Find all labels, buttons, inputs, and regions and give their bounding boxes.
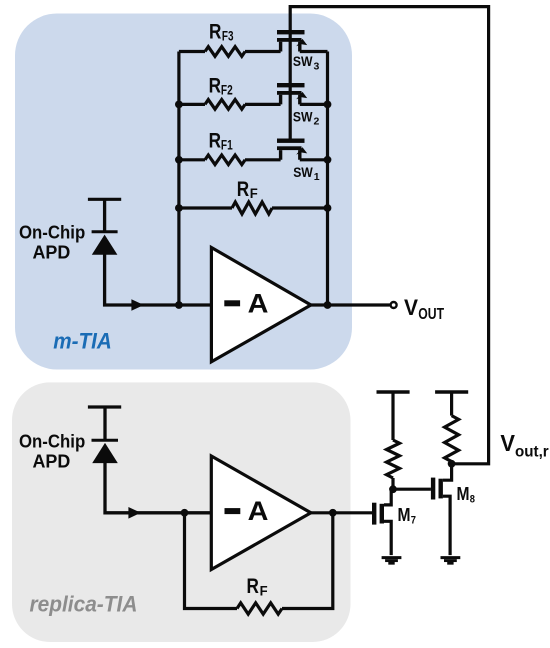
ground (M7 source) [382, 558, 402, 564]
svg-text:R: R [209, 75, 221, 98]
wire: op-amp U1 output to VOUT terminal [311, 303, 390, 306]
svg-text:SW: SW [293, 54, 313, 69]
resistor R bias left (vertical) [387, 440, 400, 478]
wire: Vout,r node down to M8 drain stub [443, 464, 452, 480]
svg-text:A: A [248, 496, 269, 526]
svg-text:7: 7 [411, 514, 416, 526]
wire: APD anode down and right to input node [105, 254, 212, 306]
svg-text:V: V [500, 430, 515, 456]
svg-text:1: 1 [314, 171, 320, 183]
wire: RF1 row left segment [179, 158, 205, 161]
svg-text:F: F [250, 186, 258, 201]
wire: m-TIA right output bus [326, 52, 329, 306]
resistor RF1 [205, 155, 245, 165]
wire: SW2 drain to right bus [300, 103, 328, 106]
supply T bar above R bias (left) [377, 390, 410, 393]
wire: RF1 row right segment to SW1 source stub [245, 158, 281, 161]
wire: replica output to M7 gate [311, 511, 372, 514]
replica-TIA region background [12, 382, 351, 642]
transistor M8 (NMOS) [431, 478, 450, 555]
wire: RF row right segment [272, 206, 328, 209]
label minus sign of op-amp U2 [225, 508, 241, 514]
supply T bar above m-TIA APD [88, 198, 121, 201]
svg-text:M: M [398, 505, 411, 526]
wire: switch gate bus up, top rail, right bus down to Vout,r corner [290, 7, 488, 464]
svg-text:APD: APD [33, 242, 71, 263]
svg-text:R: R [237, 178, 249, 201]
op-amp U2 (replica, gain -A) [211, 456, 311, 570]
junction dot: m-TIA output node [324, 301, 332, 309]
wire: left resistor to M7 drain node [391, 478, 394, 489]
wire: replica APD anode down and right to input node [105, 462, 210, 513]
svg-text:2: 2 [314, 115, 320, 127]
label minus sign of op-amp U1 [224, 300, 240, 306]
wire: RF3 row left segment [179, 50, 205, 53]
junction dot: replica output node [329, 509, 337, 517]
junction: right bus / SW2 row [324, 101, 332, 109]
wire: RF2 row right segment to SW2 source stub [245, 103, 281, 106]
wire: SW1 drain to right bus [300, 158, 328, 161]
svg-text:SW: SW [293, 165, 313, 180]
svg-text:R: R [209, 130, 221, 153]
svg-text:SW: SW [293, 109, 313, 124]
svg-text:8: 8 [470, 494, 475, 506]
current arrow into replica input [128, 507, 140, 519]
wire: RF row left segment [179, 206, 232, 209]
wire: m-TIA left input bus (inverting input node column) [177, 52, 180, 306]
svg-text:R: R [209, 20, 221, 43]
junction: left bus / RF2 row [175, 101, 183, 109]
wire: node to M8 gate [393, 488, 431, 491]
svg-text:M: M [457, 484, 470, 505]
resistor RF2 [205, 100, 245, 110]
resistor RF3 [205, 47, 245, 57]
wire: node down to M7 drain stub [384, 489, 391, 505]
diode APD (replica): anode triangle [92, 443, 118, 463]
wire: supply down to right bias resistor [450, 392, 453, 416]
svg-text:out,r: out,r [515, 444, 549, 461]
switch SW3 (MOS switch) [277, 30, 307, 52]
svg-text:replica-TIA: replica-TIA [30, 592, 138, 617]
junction dot: M7 drain / M8 gate node [389, 485, 397, 493]
resistor RF (replica) [237, 603, 282, 614]
junction dot: Vout,r node [448, 460, 456, 468]
svg-text:A: A [248, 288, 269, 318]
svg-text:On-Chip: On-Chip [19, 222, 85, 243]
resistor RF (m-TIA) [232, 202, 272, 214]
svg-text:F: F [260, 583, 268, 598]
wire: supply to APD cathode [103, 199, 106, 231]
svg-text:F3: F3 [222, 29, 234, 44]
diode APD (m-TIA): cathode bar [92, 230, 118, 233]
junction: left bus / RF row [175, 204, 183, 212]
diode APD (m-TIA): anode triangle [92, 235, 118, 255]
wire: supply to replica APD cathode [103, 407, 106, 440]
wire: right resistor to Vout,r node [450, 461, 453, 463]
terminal VOUT (open circle) [391, 302, 397, 308]
junction: right bus / SW1 row [324, 156, 332, 164]
junction: right bus / RF row [324, 204, 332, 212]
wire: RF3 row right segment to SW3 source stub [245, 50, 281, 53]
m-TIA region background [15, 14, 352, 370]
current arrow into m-TIA input [131, 299, 143, 311]
wire: RF2 row left segment [179, 103, 205, 106]
svg-text:OUT: OUT [418, 306, 444, 323]
switch SW2 (MOS switch) [277, 83, 307, 104]
diode APD (replica): cathode bar [92, 439, 119, 442]
op-amp U1 (m-TIA, gain -A) [211, 248, 311, 362]
transistor M7 (NMOS) [372, 503, 391, 555]
svg-text:APD: APD [33, 451, 71, 472]
svg-text:F1: F1 [221, 138, 233, 153]
wire: SW3 drain to right bus [300, 50, 328, 53]
switch SW1 (MOS switch) [277, 139, 307, 160]
svg-text:R: R [247, 575, 259, 598]
svg-text:On-Chip: On-Chip [19, 431, 85, 452]
wire: supply down to left bias resistor [391, 392, 394, 440]
supply T bar above R bias (right) [435, 390, 468, 393]
junction dot: replica input node [181, 509, 189, 517]
junction dot: m-TIA input node [175, 301, 183, 309]
junction: left bus / RF1 row [175, 156, 183, 164]
supply T bar above replica APD [88, 405, 121, 408]
wire: replica feedback loop left/bottom/right [185, 513, 333, 609]
svg-text:V: V [404, 295, 418, 320]
resistor R bias right (vertical) [445, 416, 459, 462]
svg-text:3: 3 [314, 60, 320, 72]
svg-text:F2: F2 [221, 83, 233, 98]
ground (M8 source) [441, 558, 461, 564]
svg-text:m-TIA: m-TIA [53, 328, 112, 353]
